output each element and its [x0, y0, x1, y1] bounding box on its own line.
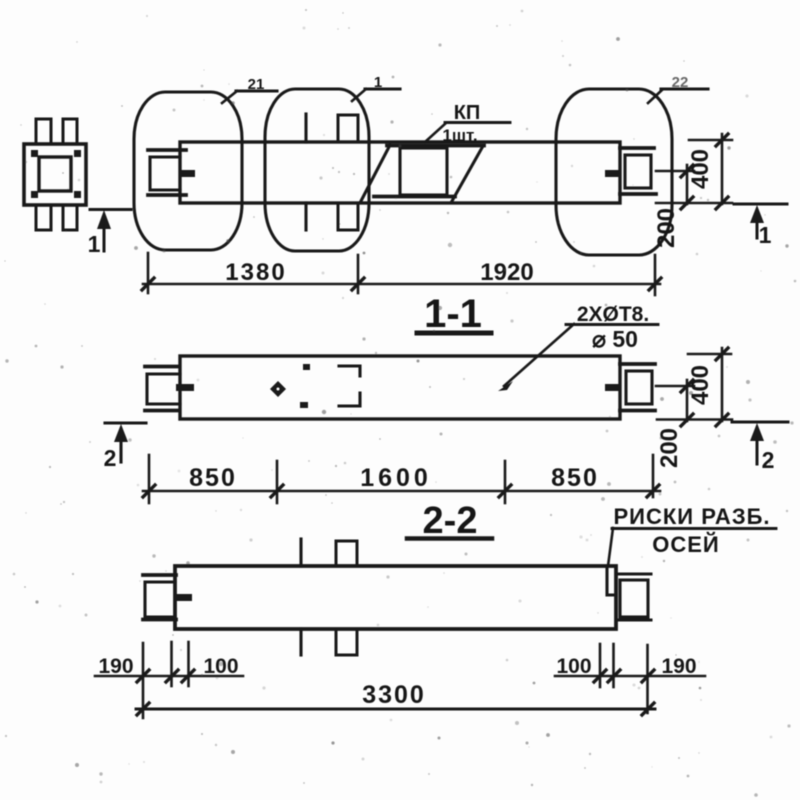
- section 1-1 dot top: [303, 364, 310, 370]
- flag label 22 leader: [648, 89, 708, 103]
- section 1-1 left axis tick: [176, 384, 194, 391]
- riski label leader: [608, 528, 613, 566]
- svg-text:1: 1: [759, 222, 772, 248]
- section 1-1 right tenon flange bottom: [620, 409, 655, 413]
- section cut symbol 2 right: arrow: [750, 423, 764, 464]
- plan view: sling loop ellipse 2: [265, 89, 369, 251]
- svg-text:ОСЕЙ: ОСЕЙ: [652, 532, 720, 557]
- section 2-2 beam outline: [175, 566, 616, 629]
- svg-text:2-2: 2-2: [423, 500, 478, 542]
- section 2-2 tab line top: [299, 539, 302, 566]
- flag label 21 leader: [222, 91, 277, 103]
- svg-text:1: 1: [88, 231, 101, 257]
- svg-text:КП: КП: [454, 102, 481, 124]
- KP embed detail box: [400, 148, 447, 195]
- svg-text:2: 2: [762, 447, 775, 473]
- section cut symbol 1 right: arrow: [750, 205, 764, 238]
- title 1-1 underline: [417, 331, 491, 336]
- svg-text:РИСКИ РАЗБ.: РИСКИ РАЗБ.: [613, 504, 770, 529]
- KP embed detail top line: [387, 144, 484, 148]
- sec2-2 small dim line right: [555, 675, 705, 678]
- section 1-1 right tenon body: [626, 371, 652, 404]
- section cut symbol 2 left: line: [105, 421, 146, 424]
- sec2-2 small dim ticks: [137, 670, 654, 682]
- section 1-1 embed bracket top: [339, 366, 360, 376]
- svg-text:100: 100: [203, 655, 238, 678]
- section cut symbol 1 right: line: [734, 203, 787, 206]
- section cut symbol 2 right: line: [732, 421, 788, 424]
- cross-section top tab left: [36, 119, 51, 144]
- section 2-2 axis notch: [607, 566, 616, 595]
- sec1-1 dim ext 4: [652, 455, 655, 497]
- sec2-2 dim ext b: [170, 642, 173, 686]
- svg-text:3300: 3300: [362, 681, 426, 709]
- section cut symbol 2 left: arrow: [114, 424, 128, 462]
- KP flag underline: [445, 121, 510, 124]
- cross-section corner anchor dots: [31, 150, 81, 198]
- sec1-1 right dim ext bottom: [657, 418, 732, 421]
- svg-text:2ХØТ8.: 2ХØТ8.: [577, 303, 649, 326]
- KP embed detail right diagonal: [452, 146, 483, 201]
- svg-text:1: 1: [374, 74, 382, 91]
- plan right dim 200 ext: [656, 170, 694, 173]
- sec1-1 right dim ticks: [681, 348, 728, 426]
- plan dim ext left: [147, 253, 150, 293]
- section 1-1 left tenon body: [147, 374, 180, 404]
- plan right dim 200 line: [686, 165, 689, 204]
- sec1-1 dim ext 2: [276, 461, 279, 503]
- plan dim ext mid: [357, 255, 360, 293]
- sec1-1 dim ticks: [143, 485, 659, 497]
- sec1-1 dim ext 3: [504, 461, 507, 503]
- plan dim line 1380/1920: [143, 283, 660, 286]
- section cut symbol 1 left: line: [90, 208, 131, 211]
- section 1-1 left tenon flange bottom: [145, 409, 178, 413]
- svg-text:1380: 1380: [225, 259, 286, 286]
- svg-text:400: 400: [687, 365, 714, 405]
- riski label underline: [612, 527, 776, 530]
- column cross-section inner square: [39, 157, 71, 191]
- sec2-2 dim ext c: [187, 642, 190, 686]
- sec2-2 dim ext a: [142, 643, 145, 718]
- svg-text:1600: 1600: [360, 464, 432, 492]
- svg-text:1шт.: 1шт.: [442, 126, 477, 145]
- svg-text:1-1: 1-1: [424, 292, 482, 336]
- section 2-2 tab line bottom: [299, 629, 302, 655]
- column cross-section outer square: [24, 144, 86, 205]
- section 1-1 left tenon flange top: [145, 365, 178, 369]
- plan right dim 400 ext top: [689, 139, 732, 142]
- plan right dim ext bottom: [656, 202, 732, 205]
- svg-text:21: 21: [248, 76, 265, 93]
- sec1-1 dim line 850/1600/850: [143, 490, 660, 493]
- strand label shelf: [566, 323, 658, 326]
- KP flag leader: [425, 123, 446, 142]
- sec1-1 right dim 200 line: [686, 380, 689, 421]
- sec1-1 right dim 400 line: [721, 348, 724, 421]
- sec2-2 dim ext e: [612, 644, 615, 687]
- svg-text:190: 190: [98, 655, 133, 678]
- plan view right tenon body: [625, 155, 651, 188]
- svg-text:850: 850: [551, 464, 599, 492]
- plan dim ext right: [654, 255, 657, 295]
- sec2-2 dim line 3300: [136, 708, 655, 711]
- plan view tab box top: [338, 115, 358, 142]
- svg-text:200: 200: [653, 208, 680, 248]
- svg-text:100: 100: [556, 655, 591, 678]
- plan right dim 400 line: [721, 134, 724, 204]
- svg-text:400: 400: [687, 149, 714, 189]
- plan dim ticks: [142, 278, 661, 290]
- flag label 1 leader: [352, 89, 400, 101]
- plan view tab box bottom: [338, 203, 358, 230]
- section 2-2 right tenon body: [620, 580, 648, 617]
- sec1-1 right dim 400 ext top: [688, 353, 731, 356]
- section 1-1 right tenon flange top: [620, 362, 655, 366]
- plan view: sling loop ellipse 1: [134, 92, 242, 250]
- plan view right axis tick: [605, 170, 621, 177]
- sec2-2 small dim line left: [95, 675, 243, 678]
- svg-text:22: 22: [672, 74, 689, 91]
- section 1-1 right axis tick: [605, 384, 620, 391]
- cross-section bottom tab left: [36, 205, 51, 230]
- section 2-2 left tenon flange bottom: [143, 618, 176, 622]
- plan view: beam outline: [180, 142, 620, 203]
- svg-text:1920: 1920: [480, 259, 533, 286]
- section 2-2 left tenon body: [145, 582, 175, 617]
- section 1-1 dot bottom: [300, 402, 308, 408]
- cross-section top tab right: [63, 119, 77, 144]
- section 2-2 right tenon flange bottom: [616, 619, 651, 622]
- plan view left tenon flange bottom: [148, 193, 186, 197]
- sec2-2 dim ext d: [599, 644, 602, 687]
- plan view tab line bottom: [304, 203, 307, 230]
- cross-section bottom tab right: [63, 205, 77, 230]
- section 1-1 beam outline: [180, 356, 620, 419]
- plan view left axis tick: [179, 170, 195, 177]
- section cut symbol 1 left: arrow: [97, 210, 111, 251]
- plan view left tenon body: [150, 157, 180, 190]
- title 2-2 underline: [407, 536, 492, 541]
- section 1-1 strand diamond: [270, 381, 286, 397]
- svg-text:200: 200: [656, 428, 683, 468]
- section 2-2 tab box top: [336, 541, 357, 566]
- svg-text:850: 850: [189, 464, 237, 492]
- sec2-2 dim 3300 ticks: [137, 703, 654, 715]
- plan view: sling loop ellipse 3: [556, 89, 672, 255]
- section 2-2 left tenon flange top: [143, 573, 176, 577]
- sec1-1 right dim 200 ext: [656, 385, 694, 388]
- plan view right tenon flange bottom: [620, 192, 656, 196]
- section 2-2 left axis tick: [174, 594, 192, 601]
- sec1-1 dim ext 1: [148, 455, 151, 503]
- svg-text:2: 2: [104, 445, 117, 471]
- sec2-2 dim ext f: [646, 645, 649, 713]
- strand label leader: [498, 324, 574, 391]
- section 2-2 tab box bottom: [336, 629, 357, 655]
- plan right dim ticks: [681, 134, 728, 209]
- svg-text:190: 190: [661, 655, 696, 678]
- section 2-2 right tenon flange top: [616, 573, 651, 576]
- KP embed detail bottom line: [374, 195, 455, 199]
- section 1-1 embed bracket bottom: [339, 393, 360, 406]
- plan view right tenon flange top: [620, 146, 654, 150]
- KP embed detail left diagonal: [361, 145, 390, 201]
- plan view tab line top: [304, 114, 307, 142]
- plan view left tenon flange top: [148, 148, 186, 152]
